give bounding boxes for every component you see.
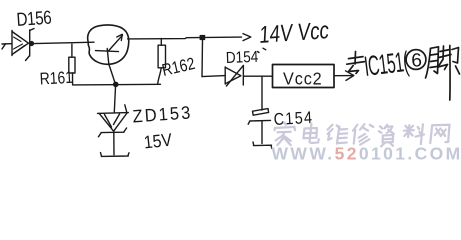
- transistor collector arrowhead: [117, 34, 123, 40]
- wire D154 to VCC2 and C154: [244, 75, 273, 77]
- wire C154 to ground: [261, 122, 263, 144]
- svg-text:14V Vcc: 14V Vcc: [259, 16, 330, 49]
- watermark char zi: [377, 125, 395, 147]
- label jiao (pin) character: [426, 46, 460, 101]
- wire to D154: [202, 76, 225, 77]
- wire C154 branch down: [261, 77, 263, 110]
- wire zener lead down: [114, 87, 115, 112]
- svg-text:R161: R161: [39, 69, 73, 89]
- transistor emitter line to rail: [107, 49, 115, 85]
- svg-text:IC151(: IC151(: [362, 45, 410, 82]
- wire arrowhead to 14V: [243, 34, 251, 41]
- wire left input with end tick: [2, 44, 12, 49]
- resistor R161: [69, 44, 75, 85]
- watermark char dian: [303, 124, 320, 143]
- node main rail junction: [200, 35, 206, 40]
- ground ZD153: [101, 153, 130, 157]
- watermark char wang: [430, 125, 450, 143]
- svg-text:6: 6: [411, 50, 423, 72]
- watermark char liao: [402, 124, 425, 144]
- watermark char xiu: [351, 124, 373, 145]
- label qu (go-to) character: [347, 52, 365, 74]
- watermark line 1 (brush CJK, light lavender): [273, 123, 450, 147]
- ground C154: [253, 142, 272, 149]
- wire diode to transistor base: [34, 42, 94, 43]
- capacitor C154 bottom plate: [248, 120, 270, 124]
- wire bottom rail: [73, 83, 161, 86]
- block VCC2 box: [273, 65, 335, 88]
- svg-text:ZD153: ZD153: [132, 102, 193, 127]
- watermark char wei: [326, 125, 349, 144]
- svg-text:D154: D154: [226, 49, 259, 67]
- svg-text:D156: D156: [16, 6, 52, 30]
- wire collector to junction node: [128, 37, 242, 39]
- svg-text:Vcc2: Vcc2: [283, 69, 323, 89]
- transistor collector diagonal: [109, 35, 123, 50]
- diode D156: [12, 29, 34, 61]
- diode D154: [225, 66, 243, 87]
- watermark char jia: [273, 123, 296, 146]
- wire junction down: [201, 40, 204, 77]
- resistor R162: [158, 39, 166, 85]
- transistor base bar: [96, 51, 119, 52]
- wire VCC2 output: [334, 75, 354, 77]
- capacitor C154 top plate: [253, 109, 269, 116]
- label D154 tick: [263, 48, 266, 50]
- node emitter rail junction: [113, 82, 119, 88]
- transistor Q (circle): [88, 25, 129, 64]
- arrowhead to IC151: [346, 71, 354, 81]
- wire zener to ground: [113, 132, 115, 155]
- svg-text:15V: 15V: [143, 130, 174, 153]
- node circled 6: [406, 50, 426, 70]
- node diode-cathode junction: [29, 41, 34, 46]
- zener ZD153: [98, 105, 129, 137]
- svg-text:WWW.520101.COM: WWW.520101.COM: [272, 144, 461, 164]
- label dot below 14V: [258, 52, 260, 53]
